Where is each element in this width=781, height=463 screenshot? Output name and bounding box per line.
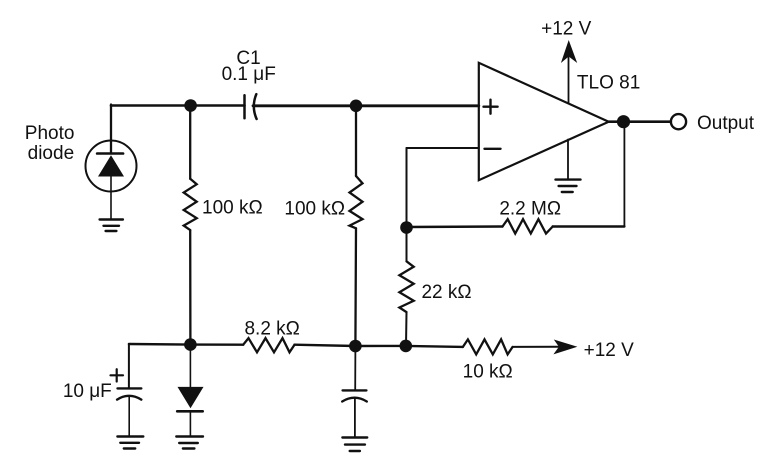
wire inverting input horizontal: [407, 147, 479, 149]
node output: [617, 115, 630, 128]
op-amp + input symbol: [484, 100, 498, 114]
wire op-amp output: [609, 120, 671, 123]
wire feedback right segment: [553, 225, 625, 227]
resistor R4 22k: [399, 261, 413, 312]
node E (below R1): [184, 338, 197, 351]
ground op-amp: [556, 180, 581, 192]
output terminal circle: [671, 114, 686, 129]
resistor R1 100k: [184, 179, 197, 230]
svg-text:2.2 MΩ: 2.2 MΩ: [499, 199, 561, 220]
svg-text:0.1 μF: 0.1 μF: [222, 64, 276, 85]
wire diode to ground: [189, 411, 191, 436]
plus sign 10uF: [111, 369, 124, 381]
wire op-amp +12V supply: [568, 57, 570, 103]
wire bottom bus: [129, 343, 243, 346]
wire inverting input vertical: [406, 148, 408, 228]
wire R1 to bottom bus: [189, 230, 191, 345]
wire bottom bus middle: [295, 345, 463, 347]
svg-text:22 kΩ: 22 kΩ: [421, 282, 471, 303]
op-amp U1 TLO 81: [479, 63, 609, 180]
node B (junction after C1): [350, 100, 363, 113]
wire photodiode bottom lead: [110, 177, 112, 220]
wire node A down to R1: [189, 106, 191, 179]
resistor R5 8.2k: [243, 338, 294, 352]
node C (feedback node): [400, 221, 413, 234]
arrow +12V supply (up): [561, 40, 577, 63]
capacitor C2 10uF: [117, 388, 141, 399]
wire output down to feedback: [623, 122, 625, 227]
wire 10k to arrow: [513, 346, 559, 348]
svg-text:10 μF: 10 μF: [63, 381, 112, 402]
wire node B down to R2: [355, 106, 357, 176]
node D (22k bottom node): [400, 340, 413, 353]
svg-text:diode: diode: [28, 143, 75, 164]
diode D2: [177, 387, 203, 411]
svg-text:100 kΩ: 100 kΩ: [284, 198, 345, 219]
svg-text:+12 V: +12 V: [584, 340, 635, 361]
svg-text:+12 V: +12 V: [541, 19, 592, 40]
ground photodiode: [100, 220, 123, 232]
capacitor C3: [342, 390, 367, 401]
photodiode D1: [86, 141, 137, 192]
op-amp - input symbol: [485, 148, 501, 150]
resistor R6 10k: [463, 339, 513, 354]
arrow +12V (right): [553, 340, 577, 355]
svg-text:Output: Output: [697, 113, 755, 134]
node A (junction after photodiode): [184, 99, 197, 112]
ground diode: [176, 437, 203, 449]
svg-text:10 kΩ: 10 kΩ: [463, 362, 513, 383]
wire center cap branch: [354, 346, 356, 390]
ground C3: [342, 438, 367, 452]
wire photodiode top lead: [110, 105, 112, 154]
wire top bus left (photodiode to C1): [111, 104, 245, 107]
svg-text:100 kΩ: 100 kΩ: [202, 197, 263, 218]
wire node C to R4: [406, 228, 408, 262]
svg-text:8.2 kΩ: 8.2 kΩ: [244, 319, 299, 340]
wire R2 to bottom bus: [354, 228, 357, 346]
ground 10uF: [117, 437, 143, 449]
wire diode branch: [189, 345, 191, 387]
capacitor C1: [245, 94, 257, 119]
wire top bus right (C1 to op-amp + input): [253, 104, 479, 107]
wire C3 to ground: [354, 398, 356, 437]
wire 10uF branch: [128, 344, 130, 388]
wire 10uF to ground: [128, 397, 130, 437]
resistor R2 100k: [350, 176, 363, 228]
svg-text:Photo: Photo: [25, 123, 75, 144]
wire feedback left segment: [407, 225, 503, 228]
resistor R3 2.2M: [503, 219, 553, 233]
node F (below R2): [349, 340, 362, 353]
wire op-amp ground lead: [567, 140, 569, 179]
svg-text:TLO 81: TLO 81: [577, 73, 640, 94]
wire R4 to bottom bus: [405, 312, 408, 346]
